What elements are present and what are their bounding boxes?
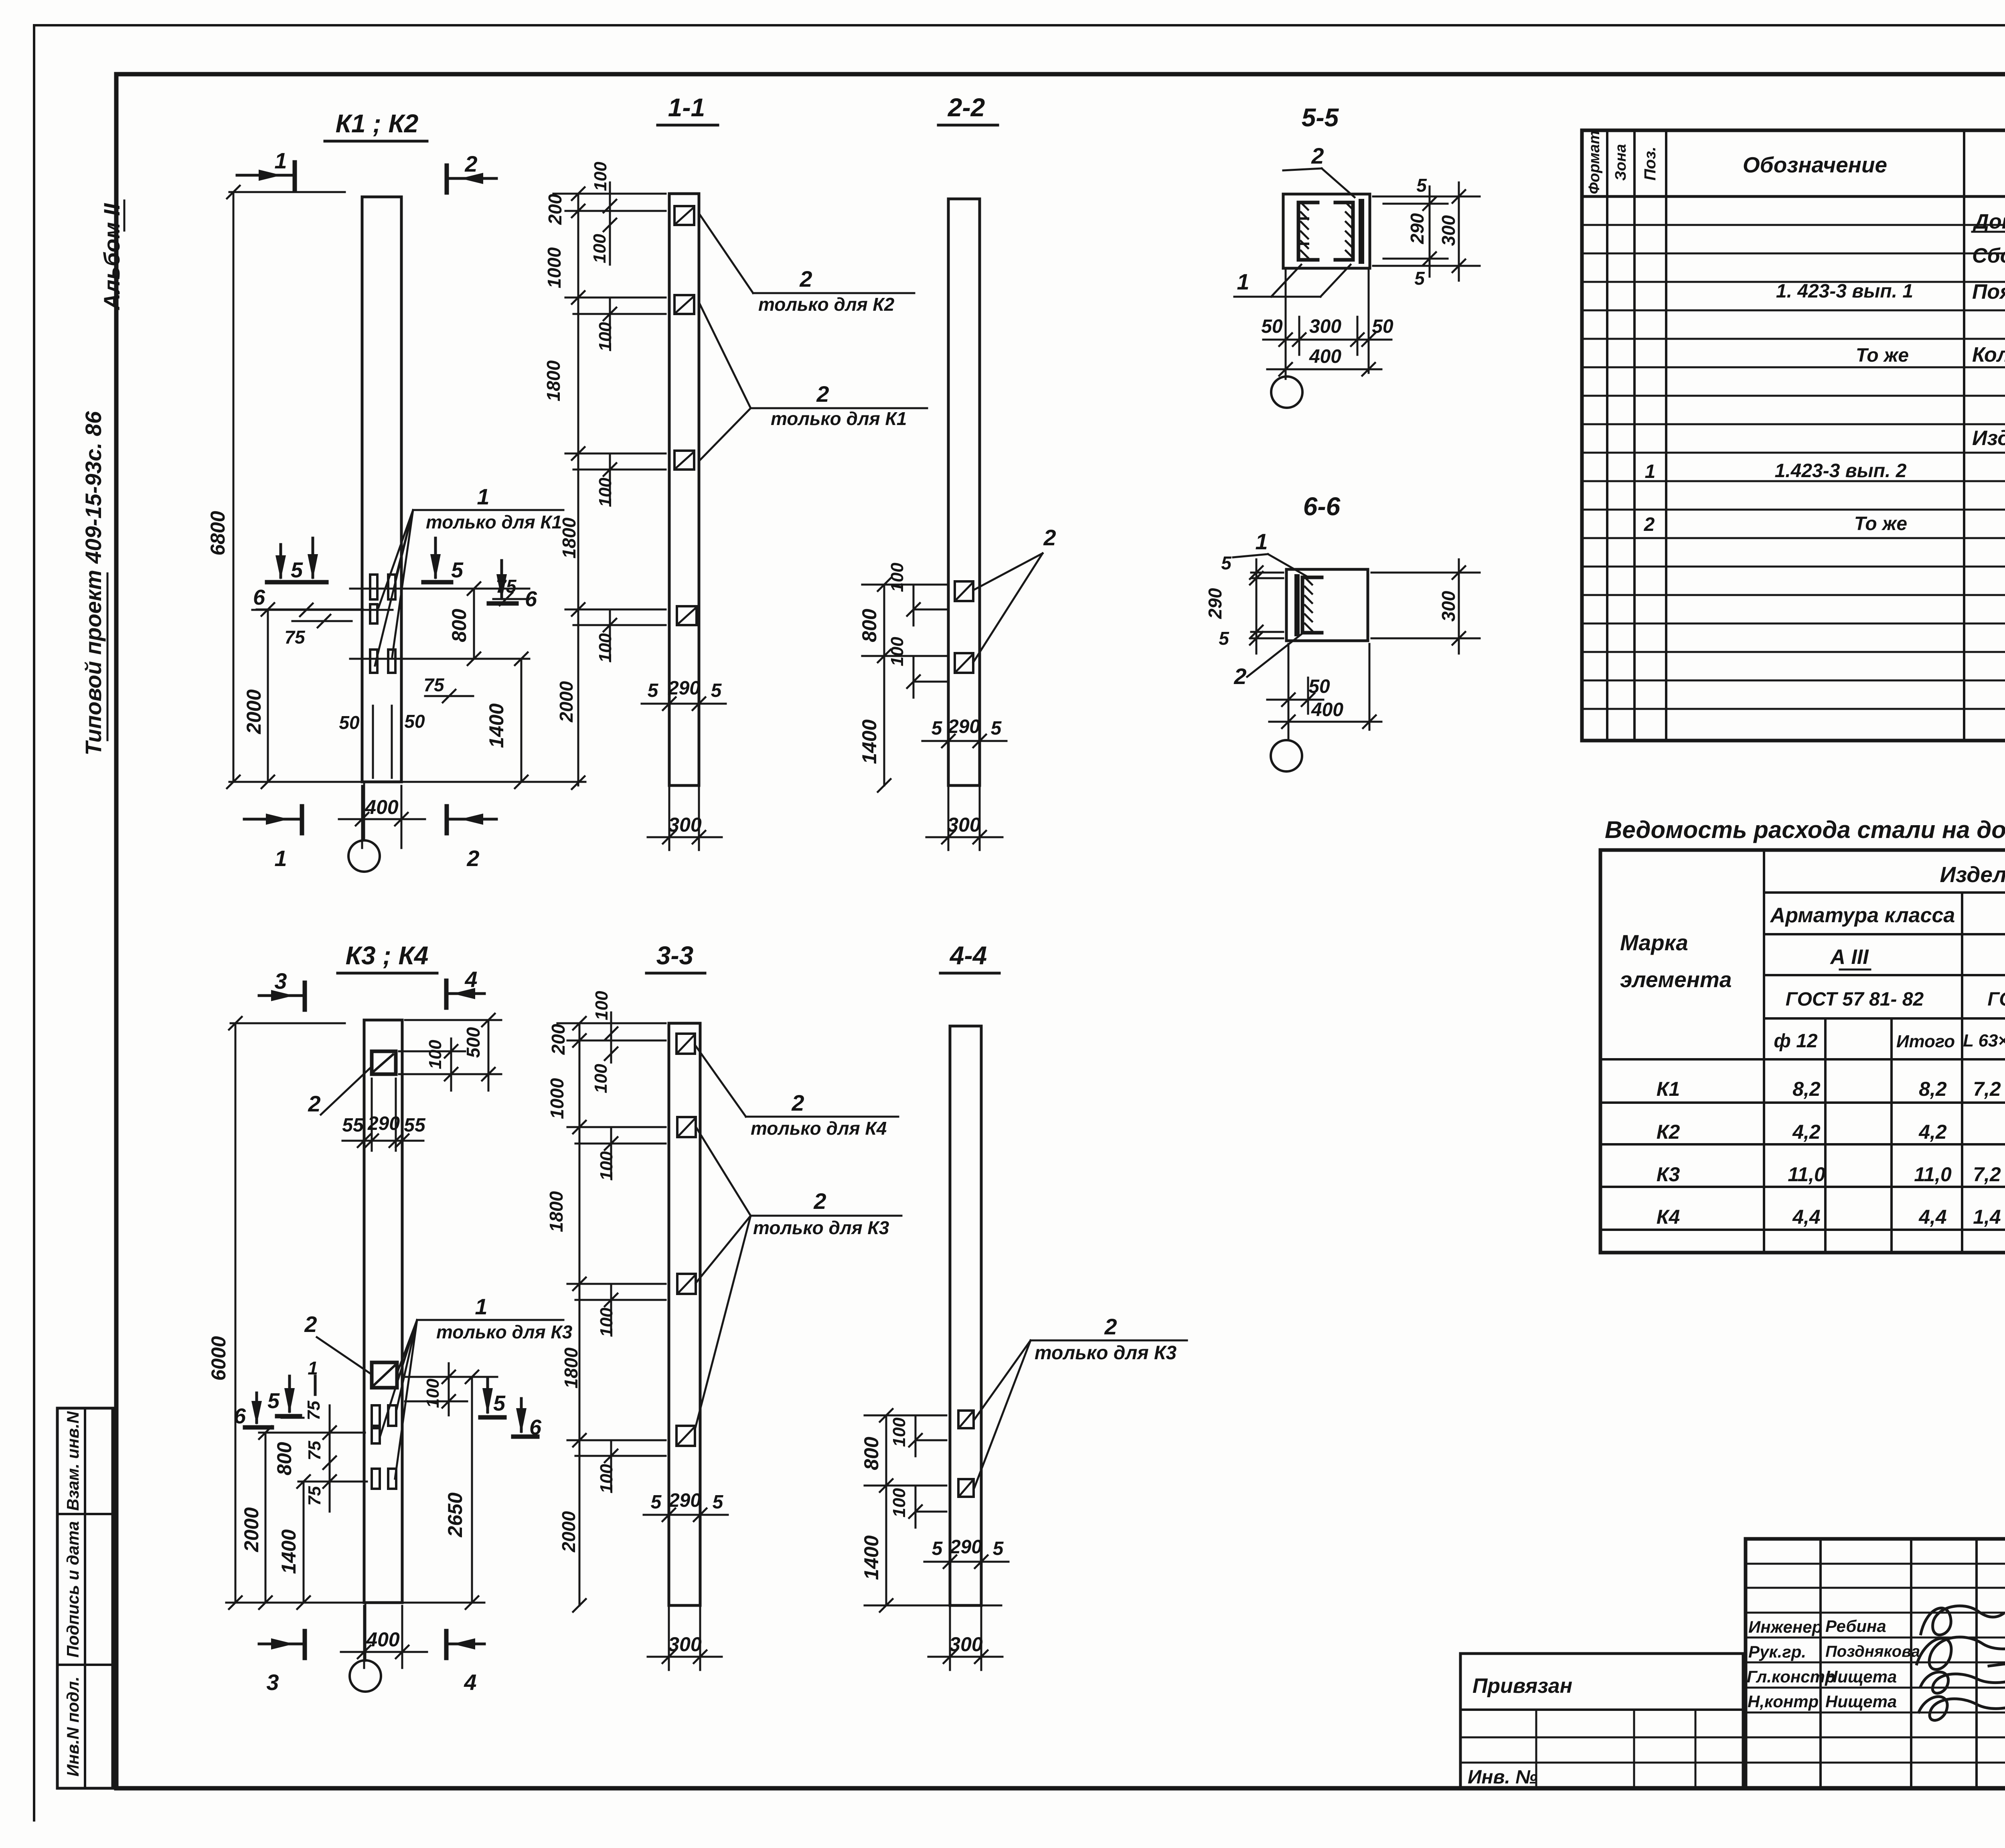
- bottom dim 300 (1-1): [648, 788, 722, 850]
- svg-text:3: 3: [266, 1670, 279, 1695]
- svg-text:только для К3: только для К3: [436, 1322, 573, 1342]
- svg-text:7,2: 7,2: [1973, 1078, 2001, 1100]
- section mark 3 top: [259, 968, 305, 1010]
- svg-text:400: 400: [1309, 346, 1341, 367]
- svg-text:2000: 2000: [240, 1507, 263, 1552]
- section mark 1 bottom: [244, 806, 302, 871]
- section mark 2 bottom: [447, 806, 496, 871]
- strip 3-3: [669, 1023, 700, 1605]
- position circle 6-6: [1271, 740, 1302, 771]
- svg-text:5: 5: [713, 1492, 724, 1513]
- position circle K3K4: [350, 1603, 381, 1692]
- vedomost heading: [1605, 816, 2005, 843]
- svg-text:5: 5: [291, 558, 303, 582]
- dim 5 290 5 (3-3): [644, 1459, 728, 1528]
- svg-text:75: 75: [423, 674, 445, 695]
- svg-text:Арматура класса: Арматура класса: [1770, 904, 1955, 927]
- svg-text:5: 5: [1414, 268, 1425, 289]
- sidebar text Tipovoy proekt: [81, 411, 107, 755]
- svg-text:Марка: Марка: [1620, 930, 1688, 955]
- strip 4-4: [950, 1026, 981, 1605]
- svg-text:1400: 1400: [860, 1535, 883, 1580]
- svg-text:1,4: 1,4: [1973, 1206, 2001, 1228]
- svg-text:100: 100: [889, 1488, 909, 1518]
- baseline 4-4: [865, 1605, 1001, 1607]
- section mark 3 bottom: [259, 1631, 305, 1695]
- svg-text:55: 55: [404, 1115, 426, 1136]
- bottom dim 300 (3-3): [648, 1608, 722, 1670]
- svg-text:2650: 2650: [444, 1492, 466, 1537]
- svg-text:только для К1: только для К1: [426, 512, 562, 532]
- svg-text:Поз.: Поз.: [1641, 147, 1659, 181]
- svg-text:55: 55: [342, 1115, 364, 1136]
- svg-text:100: 100: [887, 637, 907, 666]
- svg-text:2000: 2000: [558, 1511, 579, 1552]
- vedomost data rows: [1657, 1078, 2005, 1228]
- svg-text:5: 5: [993, 1538, 1004, 1559]
- dim chain 3-3 left: [546, 1017, 666, 1612]
- svg-text:Альбом II: Альбом II: [99, 203, 124, 311]
- callout 2 tolko dlya K1 (1-1): [700, 304, 927, 460]
- dims right 5-5: [1373, 175, 1480, 289]
- svg-text:5: 5: [932, 718, 943, 739]
- embedded plates 1-1: [674, 206, 697, 625]
- dim 5 290 5 (4-4): [924, 1500, 1009, 1576]
- bottom dim 400 K3K4: [341, 1606, 427, 1668]
- callout 1 tolko dlya K1: [375, 484, 563, 666]
- svg-text:2000: 2000: [243, 689, 265, 734]
- section mark 1 flag (K3K4): [308, 1358, 318, 1395]
- section mark 5 left (K3K4): [267, 1376, 300, 1416]
- svg-text:200: 200: [545, 194, 565, 225]
- svg-text:Ребина: Ребина: [1825, 1617, 1886, 1635]
- callout 2 top (K3K4): [308, 1067, 372, 1116]
- section mark 2 top: [447, 151, 496, 192]
- spec table header text: [1586, 131, 2005, 194]
- svg-text:Сборочный чертеж: Сборочный чертеж: [1972, 244, 2005, 267]
- svg-text:100: 100: [595, 633, 615, 663]
- view title K3;K4: [338, 941, 437, 973]
- callout 1 tolko dlya K3: [380, 1294, 573, 1479]
- svg-text:2: 2: [1644, 514, 1655, 535]
- svg-text:100: 100: [597, 1151, 616, 1181]
- signature scribbles: [1917, 1606, 2005, 1720]
- section mark 6 left: [253, 544, 298, 609]
- svg-text:Ведомость расхода стали на: Ведомость расхода стали на дополнительны…: [1605, 816, 2005, 843]
- svg-text:100: 100: [591, 162, 610, 191]
- svg-text:Документация: Документация: [1972, 210, 2005, 233]
- svg-text:1400: 1400: [858, 719, 881, 764]
- svg-text:5: 5: [1416, 175, 1427, 196]
- view title 3-3: [646, 941, 705, 973]
- svg-text:290: 290: [950, 1536, 982, 1558]
- svg-text:800: 800: [273, 1442, 296, 1476]
- dims left K3K4: [240, 1401, 367, 1609]
- column K3/K4 body: [364, 1020, 402, 1603]
- svg-text:5: 5: [711, 680, 722, 701]
- section mark 5 left: [291, 538, 326, 582]
- bottom dim 300 (2-2): [926, 788, 1003, 850]
- leader 2 (5-5): [1283, 143, 1355, 197]
- svg-text:75: 75: [304, 1401, 324, 1420]
- dim chain 1-1 left: [543, 187, 666, 789]
- svg-text:50: 50: [1261, 316, 1283, 337]
- svg-text:2: 2: [799, 266, 812, 291]
- svg-text:только для К3: только для К3: [753, 1217, 889, 1238]
- svg-text:300: 300: [949, 1633, 983, 1656]
- svg-text:100: 100: [592, 991, 612, 1020]
- svg-text:5-5: 5-5: [1302, 103, 1339, 132]
- svg-text:7,2: 7,2: [1973, 1163, 2001, 1186]
- svg-text:Н,контр: Н,контр: [1748, 1692, 1819, 1711]
- svg-text:290: 290: [948, 716, 980, 737]
- svg-text:800: 800: [858, 609, 881, 642]
- svg-text:1: 1: [1255, 529, 1268, 554]
- svg-text:1000: 1000: [544, 247, 565, 288]
- svg-text:Пояснительная: Пояснительная: [1972, 280, 2005, 304]
- baseline bottom K1K2: [229, 781, 585, 783]
- sub dims 100 3-3: [575, 991, 666, 1494]
- svg-text:Позднякова: Позднякова: [1825, 1643, 1920, 1660]
- dims left 2-2: [858, 563, 946, 792]
- svg-text:только для К2: только для К2: [758, 294, 895, 315]
- svg-text:элемента: элемента: [1620, 967, 1732, 992]
- svg-text:2: 2: [1104, 1314, 1117, 1339]
- svg-text:500: 500: [463, 1027, 484, 1058]
- svg-text:300: 300: [1309, 316, 1341, 337]
- baseline bottom K3K4: [226, 1602, 484, 1604]
- svg-text:2: 2: [791, 1090, 804, 1115]
- section mark 5 right: [423, 538, 464, 582]
- svg-text:2: 2: [1043, 525, 1056, 550]
- svg-text:Инженер: Инженер: [1748, 1617, 1822, 1636]
- svg-text:2: 2: [464, 151, 477, 176]
- svg-text:Изделия закладные: Изделия закладные: [1940, 862, 2005, 887]
- svg-text:ф 12: ф 12: [1774, 1030, 1818, 1052]
- svg-text:6: 6: [253, 585, 265, 609]
- svg-text:5: 5: [648, 680, 659, 701]
- svg-text:4-4: 4-4: [949, 941, 987, 970]
- svg-text:400: 400: [366, 1628, 400, 1651]
- svg-text:Зона: Зона: [1612, 144, 1629, 181]
- svg-text:1400: 1400: [277, 1529, 300, 1574]
- dims 100/500 top right K3K4: [399, 1014, 501, 1091]
- view title 5-5: [1302, 103, 1339, 132]
- svg-text:1: 1: [274, 148, 287, 173]
- svg-text:4,4: 4,4: [1918, 1206, 1947, 1228]
- svg-text:100: 100: [425, 1040, 445, 1069]
- svg-text:2: 2: [304, 1312, 317, 1337]
- dim 300 right 6-6: [1371, 559, 1480, 654]
- svg-text:4: 4: [464, 967, 477, 992]
- svg-text:100: 100: [591, 1064, 611, 1093]
- svg-text:75: 75: [284, 627, 306, 648]
- svg-text:L 63×5: L 63×5: [1963, 1031, 2005, 1051]
- svg-text:8,2: 8,2: [1792, 1078, 1821, 1100]
- svg-text:только для К3: только для К3: [1035, 1342, 1177, 1364]
- section mark 6 left (K3K4): [234, 1393, 272, 1428]
- dims left 4-4: [860, 1409, 946, 1612]
- leader 1 (6-6): [1233, 529, 1307, 577]
- svg-text:290: 290: [367, 1113, 400, 1134]
- svg-text:4: 4: [464, 1670, 476, 1695]
- sub dims 100 1-1: [573, 162, 666, 663]
- svg-text:400: 400: [1311, 699, 1343, 721]
- svg-text:1800: 1800: [546, 1191, 567, 1232]
- view title K1;K2: [325, 109, 427, 141]
- bottom dim 300 (4-4): [928, 1608, 1003, 1670]
- svg-text:1800: 1800: [543, 360, 564, 401]
- dim 5 290 5 (2-2): [922, 674, 1007, 756]
- svg-text:Нищета: Нищета: [1825, 1667, 1897, 1686]
- privyazan block: [1460, 1654, 1743, 1788]
- svg-text:Обозначение: Обозначение: [1743, 152, 1887, 177]
- svg-text:только для К4: только для К4: [751, 1118, 887, 1139]
- svg-text:5: 5: [932, 1538, 943, 1559]
- svg-text:К1: К1: [1657, 1078, 1680, 1100]
- svg-text:К2: К2: [1657, 1121, 1680, 1143]
- vedomost table grid: [1600, 850, 2005, 1253]
- svg-text:100: 100: [595, 322, 615, 352]
- svg-text:100: 100: [595, 478, 615, 507]
- svg-text:75: 75: [496, 576, 517, 597]
- svg-text:1.423-3 вып. 2: 1.423-3 вып. 2: [1775, 460, 1907, 482]
- dimension 2000 left: [243, 603, 363, 788]
- detail 5-5 body: [1283, 194, 1370, 268]
- callout 2 (2-2): [973, 525, 1056, 662]
- svg-text:1400: 1400: [485, 703, 508, 748]
- svg-text:1. 423-3 вып. 1: 1. 423-3 вып. 1: [1776, 281, 1913, 302]
- section mark 5 right (K3K4): [480, 1377, 506, 1417]
- svg-text:К3 ; К4: К3 ; К4: [346, 941, 429, 970]
- svg-text:1: 1: [308, 1358, 318, 1378]
- position circle 5-5: [1271, 376, 1302, 408]
- embedded plates 4-4: [958, 1411, 974, 1497]
- svg-text:Инв.N подл.: Инв.N подл.: [63, 1676, 82, 1777]
- svg-text:100: 100: [889, 1417, 909, 1447]
- signature rows text: [1747, 1617, 1920, 1711]
- svg-text:100: 100: [887, 563, 907, 592]
- position circle K1K2: [348, 782, 380, 872]
- svg-text:1: 1: [475, 1294, 487, 1319]
- svg-text:Колонна К60-7А: Колонна К60-7А: [1972, 343, 2005, 366]
- svg-text:2: 2: [466, 846, 479, 871]
- svg-text:50: 50: [339, 712, 360, 733]
- svg-text:290: 290: [668, 1490, 701, 1511]
- svg-text:Нищета: Нищета: [1825, 1692, 1897, 1711]
- svg-text:50: 50: [404, 711, 425, 732]
- strip 1-1: [669, 194, 699, 785]
- svg-text:Гл.констр: Гл.констр: [1747, 1667, 1835, 1686]
- svg-text:300: 300: [1438, 591, 1459, 621]
- svg-text:300: 300: [947, 814, 981, 836]
- svg-text:75: 75: [305, 1441, 324, 1460]
- embedded plates K1 mid: [370, 575, 395, 673]
- svg-text:Типовой проект 409-15-93с. 8: Типовой проект 409-15-93с. 86: [81, 411, 106, 755]
- svg-text:400: 400: [365, 796, 399, 818]
- svg-text:2: 2: [1233, 664, 1246, 689]
- svg-text:4,2: 4,2: [1792, 1121, 1821, 1143]
- svg-text:К4: К4: [1657, 1206, 1680, 1228]
- leader 2 (6-6): [1233, 634, 1301, 689]
- view title 2-2: [938, 93, 998, 125]
- svg-text:ГОСТ 8509 -72: ГОСТ 8509 -72: [1987, 989, 2005, 1010]
- svg-text:5: 5: [1221, 553, 1232, 573]
- svg-text:50: 50: [1372, 316, 1393, 337]
- dimension 6000 left: [207, 1017, 345, 1609]
- sidebar stamp boxes: [57, 1408, 113, 1788]
- svg-text:4,4: 4,4: [1792, 1206, 1821, 1228]
- svg-text:8,2: 8,2: [1919, 1078, 1947, 1100]
- svg-text:1800: 1800: [559, 517, 579, 559]
- svg-text:75: 75: [305, 1486, 324, 1506]
- bottom dim 400 K1K2: [339, 786, 425, 848]
- callout 2 tolko dlya K4: [695, 1045, 898, 1139]
- svg-text:То же: То же: [1854, 513, 1907, 534]
- svg-text:11,0: 11,0: [1788, 1163, 1825, 1186]
- section mark 6 right: [489, 561, 537, 611]
- dims right K3K4: [405, 1363, 497, 1609]
- svg-text:К1 ; К2: К1 ; К2: [336, 109, 419, 138]
- svg-text:Взам. инв.N: Взам. инв.N: [63, 1411, 82, 1511]
- svg-text:290: 290: [1205, 588, 1225, 619]
- dims bottom 5-5: [1261, 271, 1393, 379]
- svg-text:То же: То же: [1856, 345, 1909, 366]
- strip 2-2: [948, 199, 980, 785]
- section mark 4 top: [446, 967, 484, 1008]
- svg-text:1: 1: [274, 846, 287, 871]
- dim 5 290 5 (1-1): [642, 630, 726, 714]
- svg-text:Привязан: Привязан: [1472, 1674, 1572, 1698]
- top embedded plate K3K4: [372, 1051, 396, 1074]
- svg-text:300: 300: [668, 814, 702, 836]
- svg-text:1800: 1800: [561, 1347, 581, 1389]
- svg-text:290: 290: [1407, 213, 1428, 244]
- callout 2 tolko dlya K3 (4-4): [974, 1314, 1187, 1488]
- svg-text:5: 5: [493, 1391, 506, 1415]
- svg-text:2: 2: [308, 1091, 320, 1116]
- svg-text:5: 5: [1219, 628, 1229, 649]
- svg-text:6000: 6000: [207, 1336, 230, 1380]
- svg-text:только для К1: только для К1: [771, 408, 907, 429]
- small plates K3K4: [372, 1405, 396, 1489]
- section mark 4 bottom: [446, 1631, 484, 1695]
- svg-text:1: 1: [1645, 461, 1656, 482]
- view title 6-6: [1303, 492, 1341, 521]
- svg-text:300: 300: [1438, 215, 1459, 246]
- callout 2 tolko dlya K3 (3-3): [695, 1127, 901, 1429]
- svg-text:4,2: 4,2: [1918, 1121, 1947, 1143]
- svg-text:5: 5: [651, 1492, 662, 1513]
- svg-text:Итого: Итого: [1896, 1032, 1955, 1051]
- svg-text:800: 800: [860, 1437, 883, 1470]
- view title 1-1: [658, 93, 718, 125]
- svg-text:6800: 6800: [207, 511, 229, 555]
- svg-text:2: 2: [816, 381, 829, 407]
- svg-text:6: 6: [529, 1415, 542, 1439]
- svg-text:2: 2: [1311, 143, 1324, 168]
- svg-text:11,0: 11,0: [1914, 1163, 1952, 1186]
- column K1/K2 body: [362, 197, 401, 782]
- spec table content: [1644, 210, 2005, 535]
- svg-text:100: 100: [590, 234, 610, 263]
- dimension 6800 left: [207, 186, 345, 788]
- svg-text:1: 1: [477, 484, 489, 509]
- svg-text:Формат: Формат: [1586, 131, 1603, 194]
- svg-text:5: 5: [451, 558, 464, 582]
- svg-text:5: 5: [267, 1389, 280, 1413]
- svg-text:100: 100: [597, 1464, 616, 1494]
- dims left 6-6: [1205, 553, 1283, 654]
- callout 2 tolko dlya K2: [700, 215, 914, 315]
- embedded plates 2-2: [955, 581, 973, 673]
- svg-text:290: 290: [668, 678, 700, 699]
- svg-text:2000: 2000: [556, 681, 577, 723]
- svg-text:3-3: 3-3: [656, 941, 694, 970]
- svg-text:ГОСТ 57 81- 82: ГОСТ 57 81- 82: [1786, 989, 1924, 1010]
- specification table grid: [1582, 130, 2005, 741]
- svg-text:5: 5: [991, 718, 1002, 739]
- embedded plates 3-3: [676, 1034, 696, 1446]
- svg-text:А III: А III: [1829, 945, 1869, 969]
- svg-text:100: 100: [597, 1308, 616, 1337]
- vedomost header text: [1620, 862, 2005, 1052]
- svg-text:Подпись и дата: Подпись и дата: [63, 1521, 82, 1658]
- svg-text:6: 6: [234, 1404, 246, 1428]
- svg-text:100: 100: [423, 1378, 443, 1408]
- small dims 75/50 K1K2 left: [252, 603, 425, 778]
- view title 4-4: [940, 941, 999, 973]
- section mark 1 top: [237, 148, 295, 189]
- svg-text:Инв. №: Инв. №: [1468, 1767, 1537, 1788]
- svg-text:1000: 1000: [547, 1078, 567, 1119]
- svg-text:6-6: 6-6: [1303, 492, 1341, 521]
- leader 1 (5-5): [1234, 265, 1351, 297]
- callout 2 mid (K3K4): [304, 1312, 372, 1374]
- svg-text:1: 1: [1237, 269, 1249, 294]
- svg-text:К3: К3: [1657, 1163, 1680, 1186]
- dims bottom 6-6: [1267, 644, 1381, 740]
- svg-text:Рук.гр.: Рук.гр.: [1748, 1642, 1806, 1661]
- svg-text:50: 50: [1308, 676, 1330, 697]
- svg-text:Изделие закладное: Изделие закладное: [1972, 427, 2005, 450]
- detail 6-6 body: [1286, 569, 1368, 641]
- dim 55 290 55 (K3K4): [342, 1079, 426, 1151]
- dims 800/1400/75 K1K2 right: [350, 576, 529, 788]
- title block grid: [1746, 1539, 2005, 1788]
- svg-text:2: 2: [813, 1188, 826, 1214]
- svg-text:1-1: 1-1: [668, 93, 705, 122]
- svg-text:3: 3: [274, 968, 287, 994]
- sidebar text Album II: [99, 200, 124, 311]
- svg-text:800: 800: [448, 609, 470, 642]
- section mark 6 right (K3K4): [513, 1399, 542, 1439]
- mid embedded plate K3K4: [372, 1362, 397, 1388]
- svg-text:2-2: 2-2: [948, 93, 985, 122]
- svg-text:300: 300: [668, 1633, 702, 1656]
- svg-text:200: 200: [548, 1024, 569, 1055]
